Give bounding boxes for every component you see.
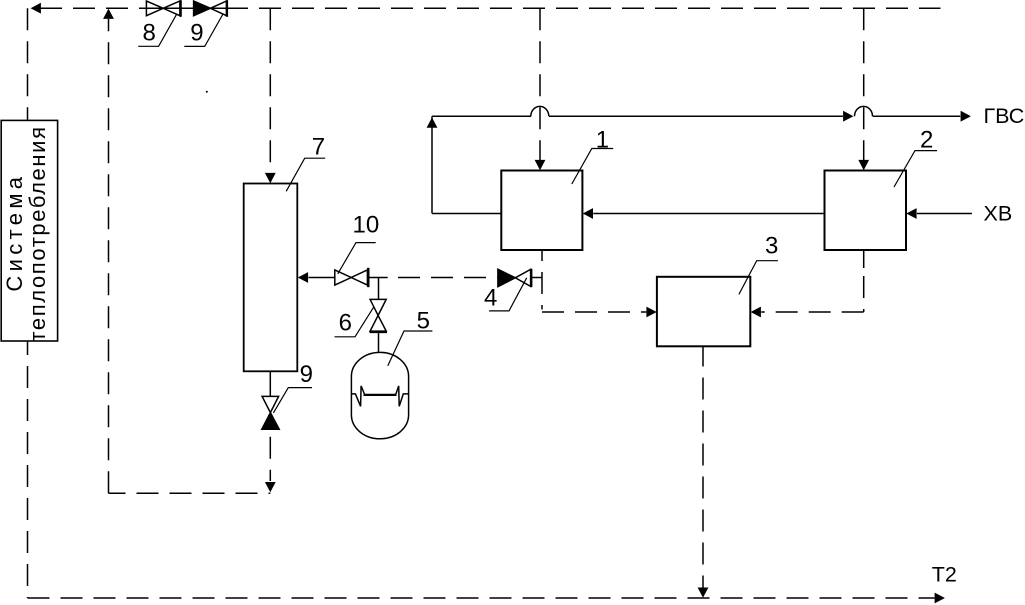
svg-text:7: 7: [312, 133, 325, 160]
wire: run to controller 3 left port: [542, 311, 646, 313]
wire: heater 1 left port to riser: [432, 213, 501, 215]
wire: valve 10 to tee above valve 6: [368, 277, 387, 279]
svg-text:теплопотребления: теплопотребления: [25, 127, 50, 342]
arrow: T2 outlet, pointing right: [935, 593, 945, 604]
wire: bottom return header T2: [28, 597, 935, 599]
block: tank 7 (water heater storage): [244, 184, 298, 372]
label: consumer system text (rotated): [2, 127, 50, 342]
arrow: into heater 1 top, pointing down: [535, 160, 546, 170]
svg-text:10: 10: [353, 212, 380, 239]
valve 10: [335, 268, 369, 287]
hop: GVS line over drop at x=863.7: [855, 106, 873, 116]
wire: outer left vertical riser, bottom section (consumer box to bottom header): [27, 341, 29, 598]
wire: run to controller 3 right port: [761, 311, 864, 313]
wire: outer left vertical riser, top section (to consumer box): [27, 8, 29, 120]
wire: heater 2 left port to heater 1 right port: [593, 213, 824, 215]
svg-text:ГВС: ГВС: [984, 104, 1025, 128]
wire: cold water inlet to heater 2: [917, 213, 972, 215]
svg-text:9: 9: [190, 19, 203, 46]
wire: heater 1 bottom drop: [541, 250, 543, 310]
wire: tank 7 to valve 10 solid: [308, 277, 334, 279]
label: valve 9 leader: [184, 14, 223, 46]
vessel 5 membrane: [364, 394, 397, 396]
arrow: GVS outlet, pointing right: [961, 111, 971, 122]
wire: valve 4 to heater 1 drop line: [531, 277, 542, 279]
block: heater stage 1: [501, 171, 582, 251]
wire: heater 2 bottom stub solid: [863, 250, 865, 268]
block: controller 3: [657, 277, 750, 347]
wire: top supply header dashed, right part: [226, 7, 941, 9]
svg-text:8: 8: [143, 19, 156, 46]
wire: GVS line from riser to hop 1: [432, 115, 531, 117]
vessel 5: expansion tank: [351, 352, 408, 438]
arrow: into heater 2 top, pointing down: [858, 160, 869, 170]
hop: GVS line over drop at x=540: [531, 106, 549, 116]
svg-text:4: 4: [484, 285, 497, 312]
label: tank 5 leader: [388, 331, 433, 366]
svg-text:3: 3: [765, 232, 778, 259]
svg-text:2: 2: [920, 126, 933, 153]
label: heater 2 leader: [894, 151, 937, 187]
svg-text:9: 9: [300, 361, 313, 388]
wire: return riser x=108.5 (bottom corner up to top header): [108, 19, 110, 493]
valve 8: [146, 0, 180, 17]
arrow: top header left end, pointing left: [31, 3, 41, 14]
svg-text:1: 1: [596, 126, 609, 153]
valve 6: [370, 299, 388, 332]
wire: controller 3 drop to bottom header: [702, 367, 704, 588]
arrow: riser pointing up: [427, 117, 438, 127]
arrow: into tank 7 right side, pointing left: [298, 272, 308, 283]
wire: heater 2 bottom drop dashed: [863, 268, 865, 312]
valve 4 (make-up check valve): [498, 269, 531, 287]
label: valve 6 leader: [335, 306, 375, 336]
wire: controller 3 bottom stub solid: [702, 346, 704, 366]
block: consumer system box: [1, 120, 57, 341]
label: valve 10 leader: [338, 243, 376, 274]
wire: drop from top header to tank 7: [269, 8, 271, 172]
label: tank 7 leader: [286, 158, 325, 191]
wire: bottom-left horizontal run y=493: [109, 492, 271, 494]
svg-text:ХВ: ХВ: [984, 201, 1013, 225]
wire: GVS line after hop 2 to outlet: [873, 115, 961, 117]
label: valve 8 leader: [138, 14, 177, 46]
block: heater stage 2: [825, 171, 907, 251]
arrow: into controller 3 left port, pointing right: [646, 307, 656, 318]
arrow: return riser into top header, pointing up: [103, 9, 114, 19]
wire: top supply header T1 dashed, left part: [40, 7, 146, 9]
arrow: into bottom header, pointing down: [698, 588, 709, 598]
valve 9 (drain valve under tank 7): [262, 396, 279, 429]
wire: drain valve 9 down to bottom-left run: [269, 429, 271, 481]
label: drain valve 9 leader: [273, 388, 312, 413]
arrow: into tank 7 top, pointing down: [265, 173, 276, 183]
arrow: drain into bottom-left run, pointing down: [265, 482, 276, 492]
wire: GVS line between hops: [549, 115, 843, 117]
svg-text:Т2: Т2: [932, 562, 957, 586]
wire: tee down to valve 6: [378, 278, 380, 300]
wire: make-up line dashed from tee to check valve 4: [391, 277, 498, 279]
label: heater 1 leader: [572, 149, 613, 185]
wire: riser up to GVS line: [431, 116, 433, 213]
wire: drop from top header to heater 1: [539, 8, 541, 162]
label: valve 4 leader: [489, 278, 527, 311]
wire: valve 6 to expansion tank 5: [378, 333, 380, 352]
arrow: into controller 3 right port, pointing left: [751, 307, 761, 318]
arrow: into heater 2 right port, pointing left: [906, 208, 916, 219]
arrow: into heater 1 right port, pointing left: [583, 208, 593, 219]
arrow: GVS line before hop 2, pointing right: [843, 111, 853, 122]
wire: top header solid segment through valves 8 and 9: [146, 7, 227, 9]
svg-text:6: 6: [339, 310, 352, 337]
valve 9 (check valve on top header): [194, 0, 227, 17]
speck (scan artifact): [206, 91, 208, 93]
wire: tank 7 bottom stub to drain valve 9: [269, 371, 271, 396]
label: controller 3 leader: [739, 261, 778, 295]
svg-text:5: 5: [417, 307, 430, 334]
wire: drop from top header to heater 2: [863, 8, 865, 162]
